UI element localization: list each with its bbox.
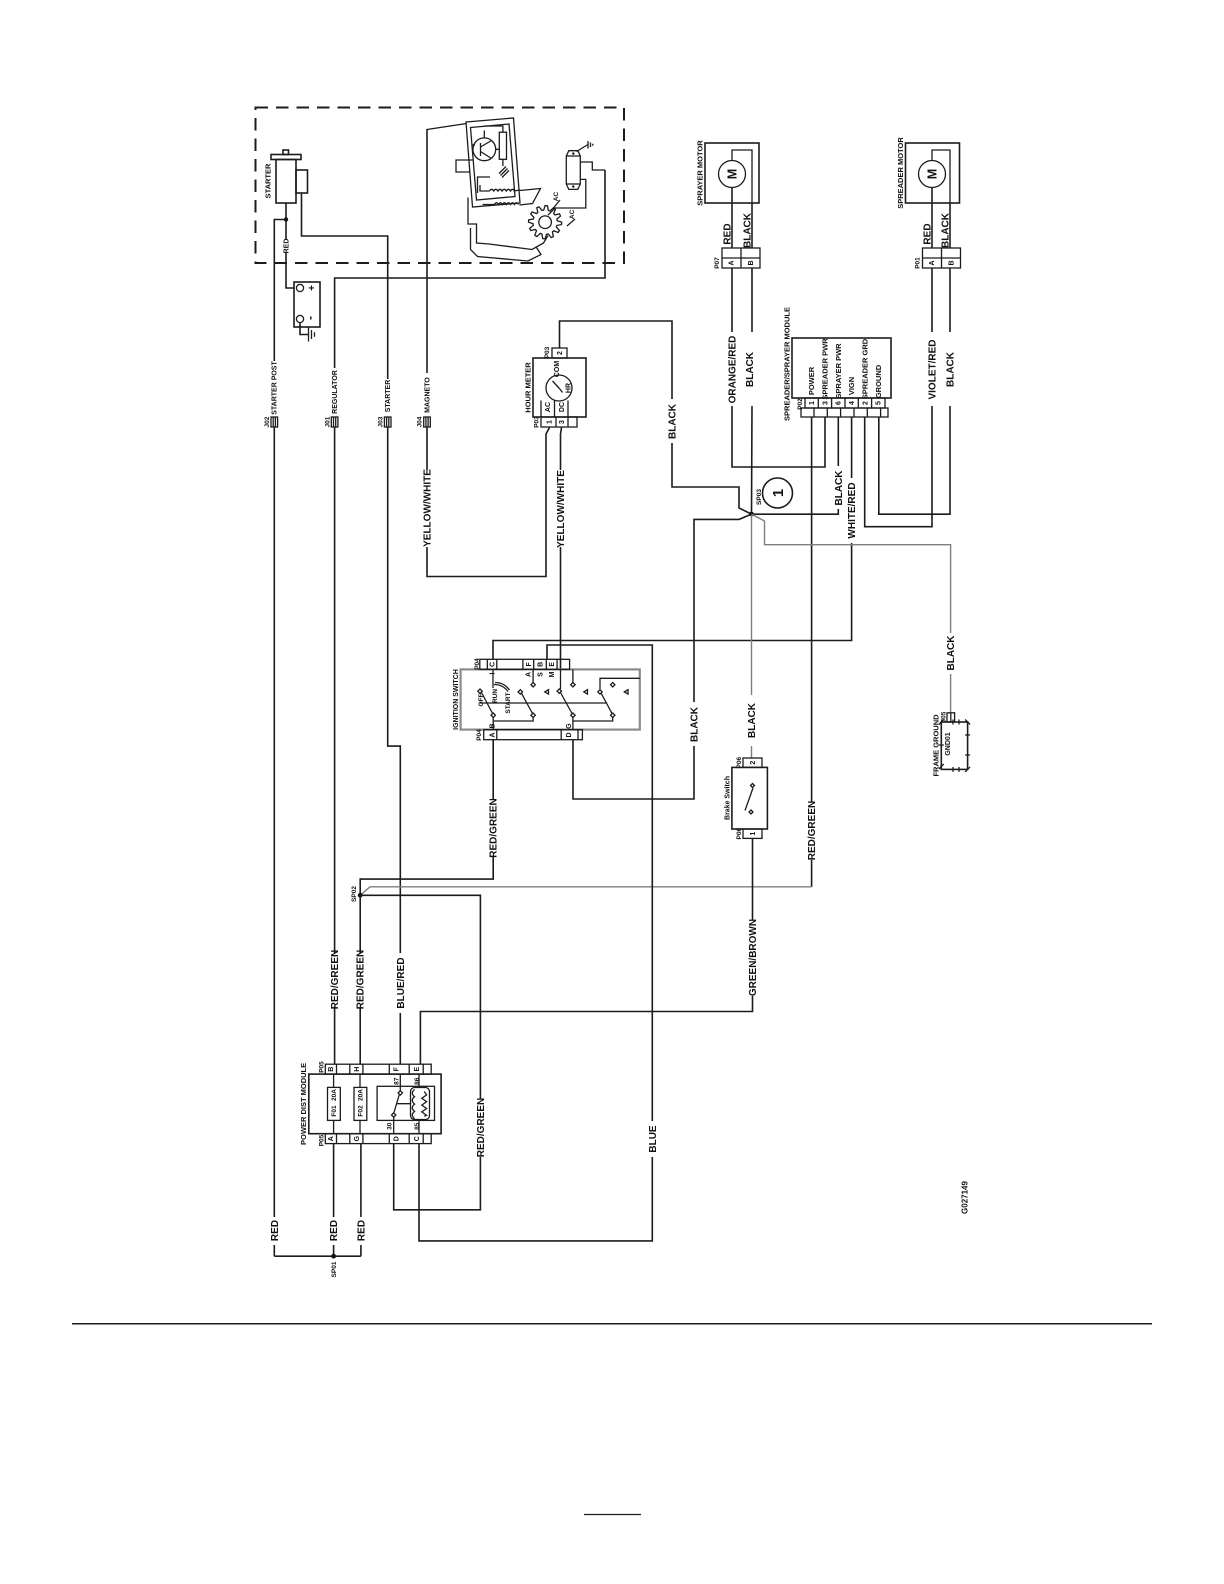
wire RED P05 G to SP01 [360,1144,362,1257]
svg-text:FRAME GROUND: FRAME GROUND [932,714,941,777]
wire sprayer motor A lead [731,188,733,249]
wire BLUE to P05 pin C [419,1144,652,1241]
svg-text:BLACK: BLACK [946,351,957,387]
svg-text:3: 3 [822,401,829,405]
node SP01 splice bus [274,1254,361,1278]
svg-text:SPREADER GRD: SPREADER GRD [861,338,870,399]
footer rule [72,1323,1152,1325]
svg-text:BLUE/RED: BLUE/RED [396,957,407,1008]
svg-text:STARTER: STARTER [264,163,273,198]
connector J03 [377,416,391,427]
svg-text:BLACK: BLACK [745,351,756,387]
node SP03 splice [749,489,763,517]
svg-text:RED/GREEN: RED/GREEN [489,798,500,857]
spreader motor [896,137,959,209]
svg-text:RED: RED [356,1220,367,1241]
ignition terminal letters I A S M [489,671,556,677]
svg-text:5: 5 [876,401,883,405]
svg-text:1: 1 [750,832,757,836]
svg-text:RED/GREEN: RED/GREEN [356,950,367,1009]
ignition fixed contact right [611,683,615,687]
wire AC2 lead to stator [567,219,575,226]
svg-text:A: A [929,260,936,265]
svg-text:F02: F02 [358,1105,365,1117]
svg-text:BLACK: BLACK [834,470,845,506]
svg-text:P04: P04 [474,658,481,670]
svg-text:ORANGE/RED: ORANGE/RED [728,336,739,404]
svg-text:J02: J02 [264,416,271,427]
svg-text:S: S [537,672,544,677]
svg-text:A: A [526,672,533,677]
wire coil leads [480,185,520,205]
svg-text:POWER DIST MODULE: POWER DIST MODULE [299,1063,308,1145]
svg-text:6: 6 [836,401,843,405]
svg-text:RUN: RUN [492,689,499,703]
connector P04 bottom [476,729,583,741]
coil primary [490,189,515,191]
wire solenoid to J03 [302,193,388,379]
wire RED/GREEN SP02 to P05 pin H [359,895,361,1064]
wire VIOLET/RED P01-A to P02 pin 2 [865,268,932,527]
svg-text:87: 87 [393,1077,400,1085]
svg-text:REGULATOR: REGULATOR [332,370,339,414]
svg-text:DC: DC [559,402,566,412]
connector J02 [264,416,278,427]
svg-text:C: C [414,1136,421,1141]
wire sprayer motor B lead [751,203,753,248]
svg-text:RED/GREEN: RED/GREEN [330,950,341,1009]
wire capsule AC lead 1 [580,162,605,170]
svg-text:B: B [948,260,955,265]
svg-text:C: C [489,662,496,667]
svg-text:SPREADER MOTOR: SPREADER MOTOR [896,137,905,209]
svg-text:J04: J04 [417,416,424,427]
wire WHITE/RED P02 pin 4 to ignition C [493,417,852,659]
wire magneto to J04 [426,129,428,373]
svg-text:G: G [566,723,573,729]
ignition bottom contacts and links [491,713,615,730]
ignition triangle contact 3 [624,690,628,694]
svg-text:A: A [489,732,496,737]
wire gray SP03 to brake switch pin 2 [751,514,753,758]
wire YELLOW/WHITE J04 to hour meter pin 1 [427,427,550,577]
svg-text:SP03: SP03 [756,489,763,505]
ignition pole I stub [492,669,494,688]
svg-text:Brake Switch: Brake Switch [724,776,731,820]
wire RED starter post J02 to SP01 [273,427,275,1256]
wire BLACK hour meter COM to SP03 [560,321,752,514]
connector P07 [714,248,760,269]
svg-text:A: A [728,260,735,265]
fuse F01 20A [328,1074,341,1134]
starter M1 [264,150,308,203]
svg-text:D: D [566,732,573,737]
svg-text:3: 3 [559,420,566,424]
svg-text:1: 1 [546,420,553,424]
wire resistor links [484,126,503,166]
ignition rotary labels OFF RUN START [478,689,512,714]
svg-text:AC: AC [569,209,576,219]
wire RED/GREEN J01 to P05 pin B [334,427,336,1064]
svg-text:F: F [526,661,533,666]
regulator module tilted (engine) [427,118,520,207]
svg-text:E: E [549,662,556,667]
connector J01 [324,416,338,427]
svg-text:POWER: POWER [807,366,816,395]
svg-text:2: 2 [750,761,757,765]
svg-text:20A: 20A [358,1089,365,1101]
svg-text:RED: RED [329,1220,340,1241]
wire RED/GREEN SP02 to P05 pin D [360,895,480,1210]
svg-text:4: 4 [849,401,856,405]
svg-text:M: M [925,169,939,179]
relay K1 [377,1074,434,1134]
svg-text:M: M [549,671,556,677]
svg-text:YELLOW/WHITE: YELLOW/WHITE [423,469,434,547]
sprayer motor [696,140,759,206]
svg-text:B: B [328,1067,335,1072]
ground battery [309,328,315,342]
spreader/sprayer module [783,307,891,421]
svg-text:P06: P06 [736,828,743,840]
ignition rotary arc [494,683,510,692]
connector P03 pins 1 and 3 [533,416,577,428]
svg-text:BLACK: BLACK [747,702,758,738]
svg-text:P03: P03 [533,416,540,428]
svg-text:RED: RED [723,223,734,244]
flywheel housing outline swoosh [471,228,542,261]
svg-text:SP01: SP01 [331,1261,338,1277]
wire BLUE/RED J03 to P05 pin F [388,427,401,1064]
svg-text:20A: 20A [331,1089,338,1101]
connector P05 top [318,1061,431,1074]
svg-text:E: E [414,1067,421,1072]
svg-text:2: 2 [557,351,564,355]
engine dashed enclosure [256,108,625,264]
svg-text:A: A [328,1136,335,1141]
wire starter to battery [286,203,294,288]
power dist module [299,1063,441,1145]
wire RED/GREEN ignition A to SP02 [360,740,493,896]
svg-text:SP02: SP02 [351,886,358,902]
wire AC lead to stator [553,200,560,209]
ignition triangle contact 2 [584,690,588,694]
svg-text:BLACK: BLACK [946,635,957,671]
svg-text:G027149: G027149 [960,1180,969,1213]
resistor (regulator) [499,132,506,159]
connector P02 row 1 [797,398,885,410]
wire RED P05 A to SP01 [333,1144,335,1257]
connector P02 row 2 [801,408,888,417]
svg-text:M: M [725,169,739,179]
svg-text:RED/GREEN: RED/GREEN [476,1098,487,1157]
svg-text:1: 1 [809,401,816,405]
svg-text:30: 30 [386,1122,393,1130]
svg-text:J05: J05 [940,711,947,722]
svg-text:P03: P03 [544,346,551,358]
svg-text:YELLOW/WHITE: YELLOW/WHITE [556,470,567,548]
svg-text:SPRAYER PWR: SPRAYER PWR [834,343,843,399]
wire gray SP02 to pin1 riser [360,887,811,896]
flywheel magneto gear [529,206,562,239]
hour meter cell dividers [541,401,568,418]
wire battery minus to ground [300,323,309,335]
hour meter clock dial [546,375,572,401]
svg-text:IGNITION SWITCH: IGNITION SWITCH [453,669,460,730]
svg-text:BLACK: BLACK [743,212,754,248]
svg-text:SPREADER PWR: SPREADER PWR [821,338,830,400]
svg-text:BLACK: BLACK [668,403,679,439]
ground (regulator internal) [499,167,509,178]
wire GREEN/BROWN brake pin 1 to P05 pin E [420,838,752,1064]
svg-text:GREEN/BROWN: GREEN/BROWN [748,919,759,996]
svg-text:BLACK: BLACK [941,212,952,248]
wire BLACK P01-B to P02 pin 5 [879,268,950,514]
coil secondary [495,203,519,205]
wire capsule AC lead 2 [548,179,586,215]
ground (capsule) [577,141,593,152]
wire B pin to BLUE riser [547,645,652,1121]
svg-text:H: H [354,1067,361,1072]
svg-text:STARTER POST: STARTER POST [272,361,279,415]
svg-text:SPRAYER MOTOR: SPRAYER MOTOR [696,140,705,206]
svg-text:AC: AC [545,402,552,412]
svg-text:B: B [748,260,755,265]
ignition triangle contact 1 [545,690,549,694]
ignition fixed contact F [531,670,535,687]
svg-text:BLACK: BLACK [690,706,701,742]
wire starter post branch [274,220,286,362]
svg-text:F01: F01 [331,1105,338,1117]
svg-text:RED: RED [923,223,934,244]
svg-text:GROUND: GROUND [874,364,883,398]
connector J04 [417,416,431,427]
svg-text:RED: RED [283,239,290,254]
svg-text:F: F [394,1066,401,1071]
ignition contact OFF blade [478,689,493,714]
node SP02 splice [351,886,363,902]
hour meter [524,358,586,417]
flywheel housing outline lower [468,198,548,250]
svg-text:2: 2 [862,401,869,405]
connector P01 [914,248,960,269]
svg-text:HR: HR [565,383,572,393]
connector J05 [940,711,954,722]
svg-text:G: G [354,1135,361,1141]
svg-text:STARTER: STARTER [385,380,392,413]
flywheel housing outline upper [520,189,541,206]
svg-text:J03: J03 [377,416,384,427]
ignition blade 4 [598,678,640,713]
ignition blade 2 (start) [518,690,532,714]
footer tick [584,1514,641,1516]
svg-text:D: D [394,1136,401,1141]
node starter branch junction [284,217,288,221]
svg-text:HOUR METER: HOUR METER [524,362,533,413]
wire spreader motor A lead [931,188,933,249]
svg-text:GND01: GND01 [945,732,952,755]
svg-text:P04: P04 [476,729,483,741]
ignition common bar [480,702,607,704]
connector P04 top [474,658,570,670]
splice callout circle 1 [763,478,793,508]
svg-text:VIOLET/RED: VIOLET/RED [928,339,939,399]
ignition fixed contact mid [572,669,574,683]
svg-text:1: 1 [770,489,787,497]
transistor Q1 [472,131,496,161]
svg-text:+: + [307,285,318,291]
battery B1 [294,282,320,327]
svg-text:P05: P05 [318,1134,325,1146]
wire BLACK ignition G to SP03 [573,514,752,799]
svg-text:COM: COM [554,361,561,378]
svg-text:SPREADER/SPRAYER MODULE: SPREADER/SPRAYER MODULE [783,307,792,421]
wire RED/GREEN P02 pin 1 to SP02 [811,417,813,887]
wire BLACK P02 pin 6 to SP03 [752,417,839,514]
svg-text:J01: J01 [324,416,331,427]
svg-text:RED: RED [270,1220,281,1241]
svg-text:85: 85 [414,1122,421,1130]
svg-text:BLUE: BLUE [648,1125,659,1153]
svg-text:MAGNETO: MAGNETO [424,377,431,413]
svg-text:AC: AC [553,192,560,202]
svg-text:RED/GREEN: RED/GREEN [807,801,818,860]
svg-text:P07: P07 [714,257,721,269]
svg-text:86: 86 [414,1077,421,1085]
wire spreader motor B lead [949,203,951,248]
wire gray SP03 to frame ground [752,514,951,713]
connector P03 pin 2 [544,346,567,358]
svg-text:B: B [537,662,544,667]
svg-text:VIGN: VIGN [847,377,856,395]
brake switch [724,757,767,840]
svg-text:WHITE/RED: WHITE/RED [847,482,858,538]
ignition terminal letters B G [489,723,573,729]
connector P05 bottom [318,1134,431,1147]
wire regulator capsule to J01 [335,170,605,368]
svg-text:-: - [303,316,317,320]
frame ground GND01 [932,714,970,777]
svg-text:P05: P05 [318,1061,325,1073]
svg-text:P01: P01 [914,257,921,269]
ignition switch box [453,669,640,730]
wire BLACK P07-B to SP03 [751,268,754,514]
capacitor capsule (engine) [566,151,580,190]
fuse F02 20A [354,1074,367,1134]
ignition blade 3 [557,669,572,713]
wire ORANGE/RED P07-A to P02 pin 3 [732,268,825,467]
wire YELLOW/WHITE hour meter DC pin 3 to ignition E [561,428,562,670]
